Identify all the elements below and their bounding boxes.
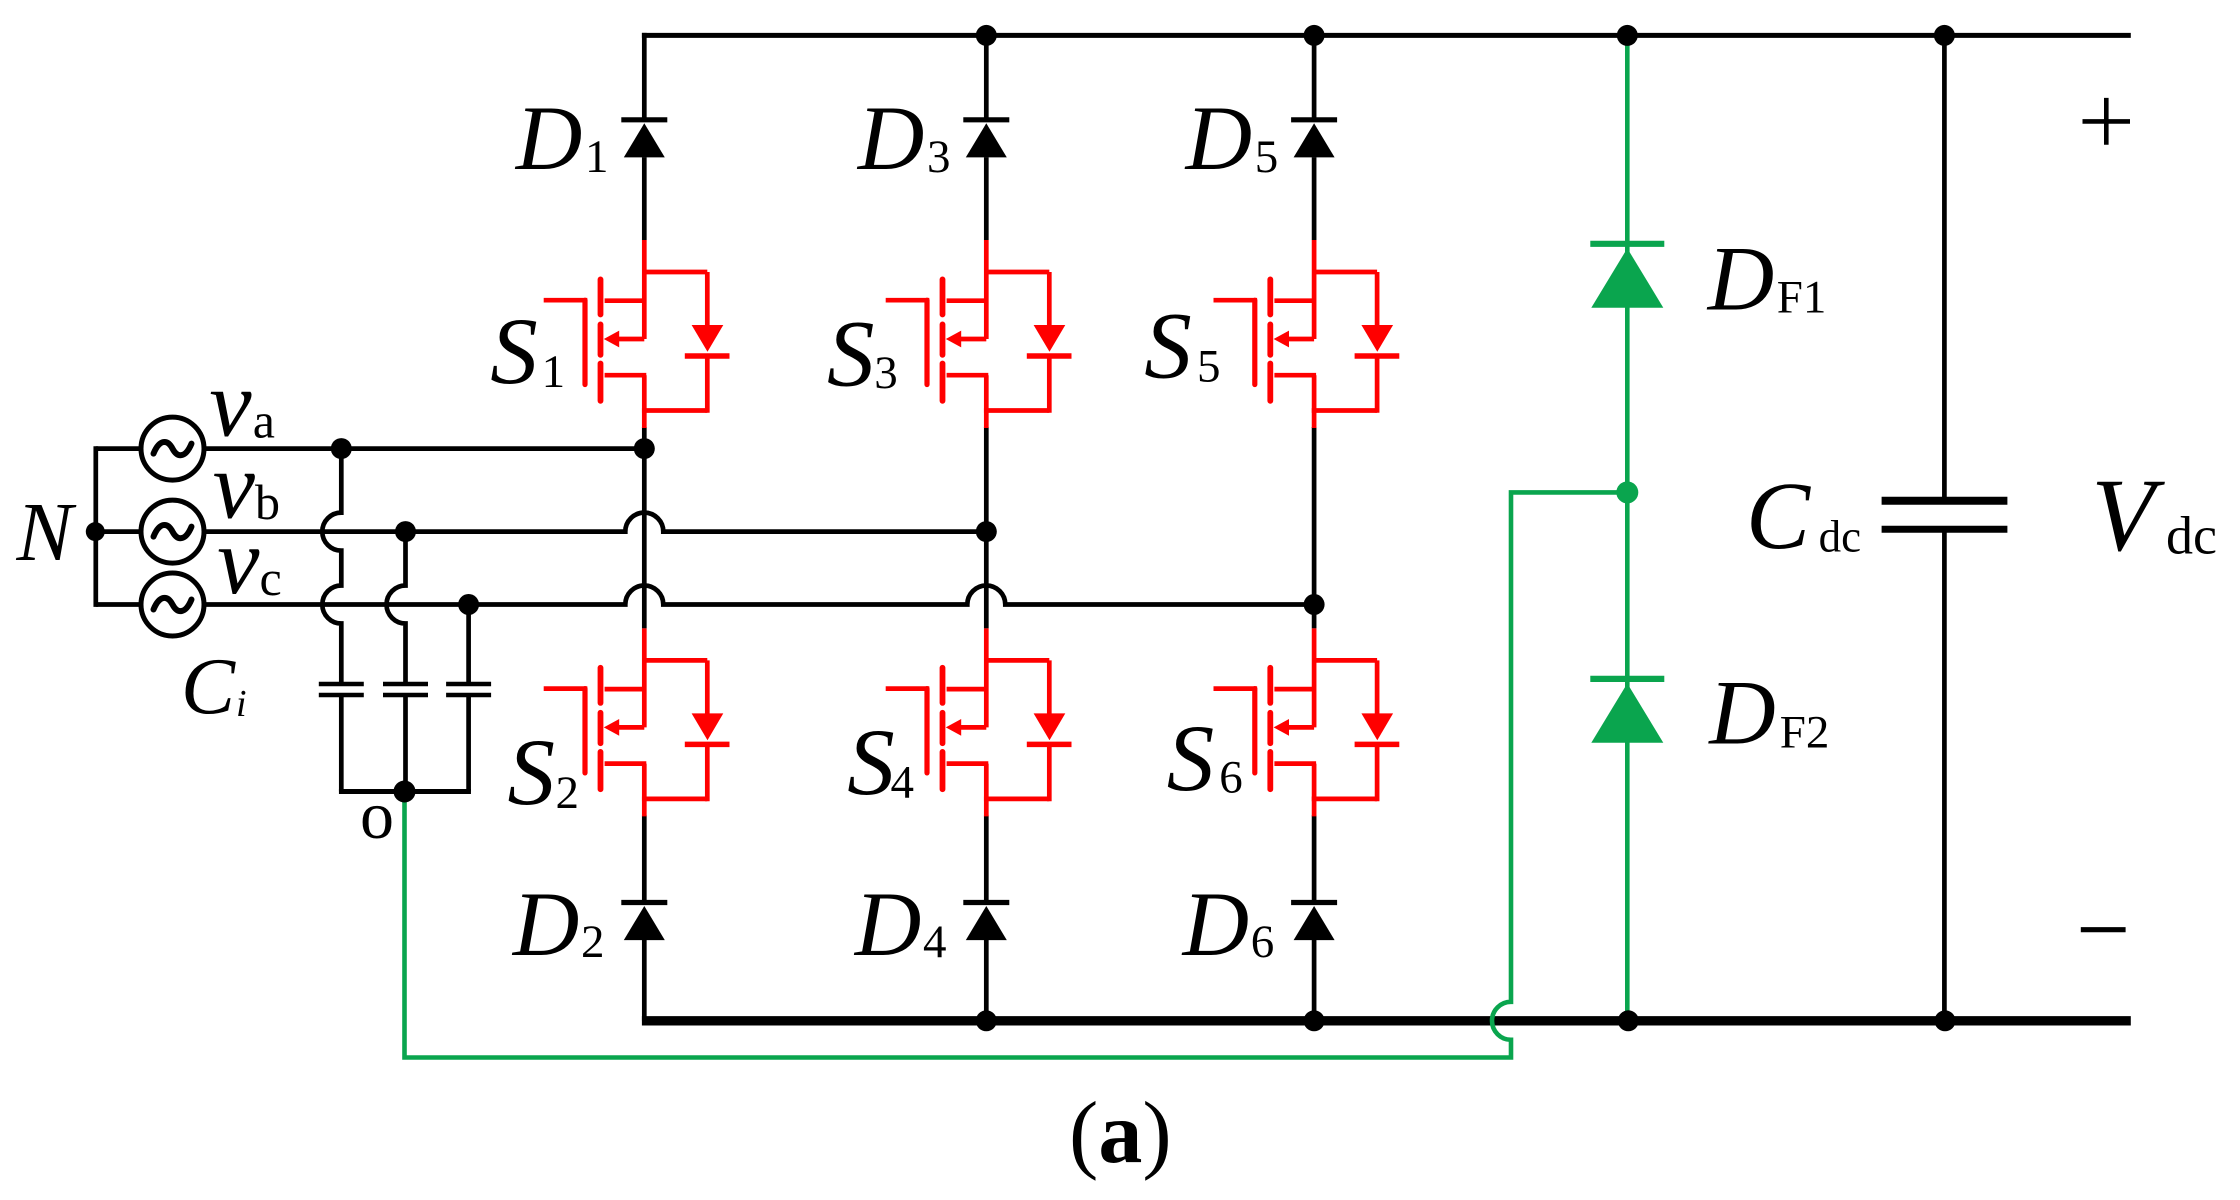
label D6 (1181, 873, 1275, 975)
svg-text:v: v (217, 508, 260, 614)
svg-text:6: 6 (1251, 916, 1275, 968)
svg-text:dc: dc (1819, 511, 1861, 561)
label N (16, 486, 77, 579)
svg-text:D: D (1184, 87, 1252, 189)
wire: leg 2 D4 to bottom rail (984, 940, 989, 1021)
wire: phase a line (204, 446, 644, 451)
diode D3 (963, 120, 1009, 158)
label vb (213, 433, 280, 539)
wire: leg 2 upper (rail to D3) (984, 33, 989, 118)
diode D4 (963, 903, 1009, 941)
AC source vc (141, 573, 204, 636)
svg-text:2: 2 (581, 916, 605, 968)
svg-text:V: V (2091, 458, 2165, 573)
svg-text:5: 5 (1255, 131, 1279, 183)
capacitor Ci-1 (319, 684, 364, 792)
label va (209, 350, 275, 456)
label S1 (490, 298, 565, 404)
wire: phase c dropper to Ci (466, 605, 471, 685)
node: bottom rail / Vdc leg (1935, 1010, 1956, 1031)
node: bottom rail / DF leg (1618, 1010, 1639, 1031)
wire: neutral stub to va (96, 446, 142, 451)
wire: neutral stub to vc (96, 602, 142, 607)
svg-text:D: D (1181, 873, 1249, 975)
wire: green clamp leg (1625, 35, 1630, 1020)
wire: capacitor common bus (node o) (339, 789, 471, 794)
wire: neutral stub to vb (node N) (96, 529, 142, 534)
wire: leg 2 D3 to S3 (984, 157, 989, 240)
svg-text:i: i (236, 683, 247, 725)
wire: leg 1 D2 to bottom rail (642, 940, 647, 1021)
wire: leg 3 D5 to S5 (1312, 157, 1317, 240)
svg-text:D: D (856, 87, 924, 189)
wire: Vdc leg lower (1942, 529, 1947, 1021)
wire: leg 3 upper (rail to D5) (1312, 33, 1317, 118)
MOSFET S6 (1214, 628, 1400, 816)
label D1 (514, 87, 609, 189)
wire: phase b dropper to Ci (hops c line) (387, 532, 406, 684)
svg-text:D: D (511, 873, 579, 975)
wire: neutral bus vertical (93, 446, 98, 607)
label S4 (847, 709, 914, 815)
wire: leg 1 D1 to S1 (642, 157, 647, 240)
label D3 (856, 87, 951, 189)
label S2 (508, 719, 580, 825)
wire: Vdc leg upper (1942, 35, 1947, 500)
svg-text:3: 3 (874, 347, 898, 399)
svg-text:D: D (514, 87, 582, 189)
svg-text:2: 2 (556, 767, 580, 819)
label D2 (511, 873, 605, 975)
svg-text:3: 3 (927, 131, 951, 183)
label + (positive terminal) (2083, 98, 2131, 145)
svg-text:S: S (490, 298, 538, 404)
wire: phase b line (hops leg 1) (204, 513, 986, 532)
svg-text:dc: dc (2166, 506, 2217, 566)
diode DF1 (1590, 244, 1664, 308)
svg-text:4: 4 (923, 916, 947, 968)
svg-text:c: c (260, 550, 282, 606)
node o (394, 781, 416, 803)
node: top rail / leg 2 (976, 25, 997, 46)
label DF2 (1707, 662, 1829, 764)
wire: phase c line (hops legs 1 and 2) (204, 586, 1314, 605)
node: phase c tap (458, 594, 479, 615)
capacitor Cdc (1882, 501, 2008, 529)
svg-text:1: 1 (542, 346, 566, 398)
label vc (217, 508, 281, 614)
capacitor Ci-2 (383, 684, 428, 792)
node: top rail / Vdc leg (1934, 25, 1955, 46)
node: bottom rail / leg 2 (976, 1010, 997, 1031)
svg-text:N: N (16, 486, 77, 579)
diode D1 (621, 120, 667, 158)
label - (negative terminal) (2081, 927, 2126, 932)
wire: bottom DC rail (-) (642, 1016, 2131, 1025)
svg-text:S: S (827, 301, 875, 407)
wire: leg 1 S1 to S2 (642, 427, 647, 628)
node: phase c / leg 3 (1304, 594, 1325, 615)
label S6 (1167, 705, 1243, 811)
AC source vb (141, 500, 204, 563)
svg-text:D: D (853, 873, 921, 975)
svg-text:F1: F1 (1777, 271, 1827, 323)
wire: leg 1 upper (rail to D1) (642, 33, 647, 118)
wire: leg 3 S5 to S6 (1312, 427, 1317, 628)
svg-text:D: D (1707, 662, 1775, 764)
node: phase b / leg 2 (976, 521, 997, 542)
label D4 (853, 873, 947, 975)
label S3 (827, 301, 898, 407)
capacitor Ci-3 (446, 684, 491, 792)
diode D6 (1291, 903, 1337, 941)
node: phase b tap (395, 521, 416, 542)
MOSFET S2 (544, 628, 730, 816)
svg-text:C: C (181, 642, 236, 732)
svg-text:1: 1 (585, 131, 609, 183)
MOSFET S3 (886, 240, 1072, 428)
wire: leg 2 S3 to S4 (984, 427, 989, 628)
svg-text:S: S (847, 709, 895, 815)
wire: leg 1 S2 to D2 (642, 815, 647, 900)
svg-text:F2: F2 (1780, 707, 1830, 759)
node: green DF midpoint (1616, 481, 1638, 503)
svg-text:C: C (1746, 462, 1811, 569)
AC source va (141, 417, 204, 480)
label Cdc (1746, 462, 1861, 569)
node: bottom rail / leg 3 (1304, 1010, 1325, 1031)
wire: leg 3 S6 to D6 (1312, 815, 1317, 900)
wire: leg 3 D6 to bottom rail (1312, 940, 1317, 1021)
label DF1 (1706, 227, 1827, 329)
wire: top DC rail (+) (642, 33, 2131, 38)
diode DF2 (1590, 679, 1664, 743)
label Vdc (2091, 458, 2217, 573)
diode D2 (621, 903, 667, 941)
MOSFET S1 (544, 240, 730, 428)
svg-text:a: a (253, 392, 275, 448)
svg-text:S: S (1144, 293, 1192, 399)
svg-text:6: 6 (1219, 752, 1243, 804)
svg-text:S: S (508, 719, 556, 825)
diode D5 (1291, 120, 1337, 158)
MOSFET S5 (1214, 240, 1400, 428)
wire: green feedback o to DF midpoint (hops bottom rail) (405, 492, 1628, 1057)
node: top rail / leg 3 (1304, 25, 1325, 46)
node N (86, 522, 105, 541)
svg-text:(a): (a) (1069, 1085, 1172, 1182)
svg-text:o: o (360, 777, 394, 853)
node: phase a tap (331, 438, 352, 459)
svg-text:5: 5 (1197, 341, 1221, 393)
svg-text:D: D (1706, 227, 1774, 329)
wire: phase a dropper to Ci (hops b and c lines) (322, 449, 341, 684)
svg-text:S: S (1167, 705, 1215, 811)
wire: leg 2 S4 to D4 (984, 815, 989, 900)
label o (360, 777, 394, 853)
label S5 (1144, 293, 1220, 399)
svg-text:4: 4 (891, 757, 915, 809)
node: top rail / DF leg (1617, 25, 1638, 46)
label D5 (1184, 87, 1279, 189)
label Ci (181, 642, 247, 732)
MOSFET S4 (886, 628, 1072, 816)
node: phase a / leg 1 (634, 438, 655, 459)
